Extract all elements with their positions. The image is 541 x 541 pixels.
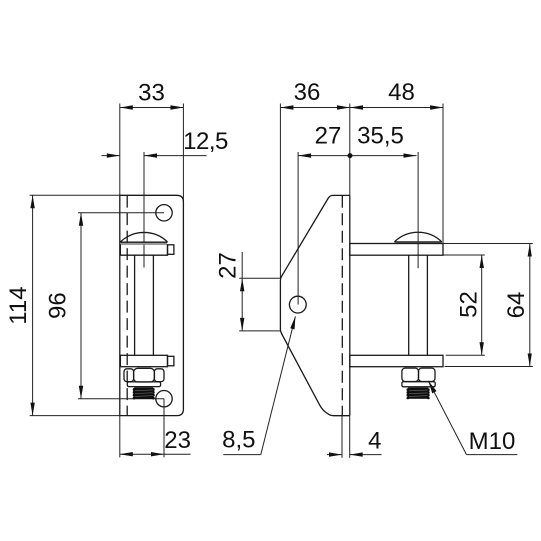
svg-text:12,5: 12,5: [183, 128, 228, 155]
left view top bar tab: [168, 245, 174, 255]
dimension 96 line: [80, 213, 82, 399]
left view nut centre facet: [134, 368, 155, 382]
left view bottom bar: [120, 355, 167, 366]
dimension 33 extension right: [182, 104, 184, 203]
left view mounting plate outline: [120, 195, 184, 415]
right view hidden plate face dashed line: [341, 196, 343, 415]
dimension 96 extension bottom: [78, 398, 164, 400]
dimension 52 arrow bottom: [480, 342, 484, 355]
dimension 96 arrow bottom: [79, 386, 83, 399]
dimension 96 arrow top: [79, 213, 83, 226]
dimension origin dot: [348, 153, 353, 158]
svg-text:52: 52: [455, 291, 482, 318]
dimension 33 extension left: [119, 104, 121, 196]
dimension 33 arrow right: [170, 105, 183, 109]
right view bolt shaft left edge: [408, 255, 410, 355]
dimension 52 extension bottom: [446, 354, 485, 356]
left view top hole: [156, 205, 172, 221]
dimension 4 arrow right: [350, 452, 363, 456]
svg-text:33: 33: [138, 79, 165, 106]
dimension 36 arrow left: [280, 105, 293, 109]
dimension 64 extension top: [443, 243, 533, 245]
dimension 114 extension bottom: [30, 415, 120, 417]
dimension 4 extension left: [341, 416, 343, 458]
dimension 4 line left tail: [327, 454, 342, 456]
right view thread crest streaks: [409, 390, 428, 396]
right view bolt shaft right edge: [426, 255, 428, 355]
left view nut left facet: [124, 369, 134, 382]
bolt centre extension line left view: [143, 152, 145, 268]
left view washer: [127, 382, 160, 387]
dimension 27 vertical extension bottom: [239, 330, 280, 332]
dimension 4 extension right: [349, 416, 351, 458]
dimension 64 arrow bottom: [528, 354, 532, 367]
dimension 23 arrow left: [120, 452, 133, 456]
leader 8,5 line: [261, 316, 296, 454]
dimension 27 vertical line: [241, 252, 243, 331]
svg-text:27: 27: [215, 252, 242, 279]
leader M10 arrow: [428, 381, 436, 394]
right view weld fin and plate edge outline: [280, 195, 349, 415]
right view dome base gray band: [395, 242, 441, 244]
dimension 36 48 line: [280, 107, 443, 109]
svg-text:M10: M10: [469, 428, 516, 455]
leader M10 underline: [467, 454, 518, 456]
left view dome base line: [120, 241, 167, 243]
dimension 114 arrow bottom: [30, 403, 34, 416]
right view plate right face: [349, 195, 351, 415]
left view bolt shaft right edge: [152, 255, 154, 355]
left view hidden fin edge dashed line: [126, 196, 128, 416]
dimension 33 line: [120, 107, 184, 109]
dimension 114 line: [32, 195, 34, 415]
dimension 27 35,5 line: [298, 155, 416, 157]
dimension 27 vertical arrow top: [240, 278, 244, 291]
dimension 48 arrow left: [350, 105, 363, 109]
left view thread crest streaks: [135, 390, 153, 397]
dimension 12,5 arrow left: [107, 153, 120, 157]
dimension 48 arrow right: [430, 105, 443, 109]
svg-text:64: 64: [503, 292, 530, 319]
right view top arm: [350, 244, 443, 256]
dimension 64 extension bottom: [445, 366, 533, 368]
dimension 12,5 line right tail: [144, 155, 207, 157]
right view bolt dome head: [394, 232, 441, 242]
dimension 35,5 arrow right: [404, 153, 417, 157]
right view nut left facet: [402, 368, 419, 381]
right view threaded stud: [407, 388, 430, 400]
dimension 23 extension right from hole centre: [163, 399, 165, 458]
right view plate bottom edge: [333, 415, 350, 417]
right view nut right facet: [419, 368, 436, 381]
dimension 23 arrow right: [151, 452, 164, 456]
dimension 64 arrow top: [528, 244, 532, 257]
left view dome base gray band: [121, 243, 167, 245]
dimension 4 line right tail: [350, 454, 382, 456]
dimension 27 vertical arrow bottom: [240, 318, 244, 331]
svg-text:48: 48: [388, 79, 415, 106]
left view top bar: [120, 244, 167, 255]
left view threaded stud: [133, 387, 155, 399]
dimension 52 line: [481, 255, 483, 355]
svg-text:114: 114: [5, 286, 32, 324]
leader 8,5 underline: [223, 454, 260, 456]
right view fin hole: [289, 296, 306, 313]
right view dome base line: [394, 241, 441, 243]
dimension 35,5 extension to bolt axis: [417, 152, 419, 268]
svg-text:4: 4: [368, 428, 381, 455]
dimension 64 line: [529, 244, 531, 367]
dimension 23 extension left: [119, 416, 121, 458]
left view top bar top faint edge: [120, 243, 167, 245]
left view bolt shaft left edge: [134, 255, 136, 355]
dimension 12,5 arrow right: [144, 153, 157, 157]
right view bottom arm: [350, 355, 443, 366]
left view nut right facet: [154, 369, 164, 382]
svg-text:35,5: 35,5: [357, 123, 404, 150]
dimension 27 arrow left: [298, 153, 311, 157]
leader M10 line: [428, 381, 466, 455]
dimension 52 extension top: [443, 254, 485, 256]
dimension 27 extension to fin hole: [297, 152, 299, 305]
left view bottom bar tab: [168, 356, 174, 366]
dimension 114 arrow top: [30, 195, 34, 208]
right view washer: [402, 382, 435, 387]
dimension 12,5 line left tail: [102, 155, 120, 157]
left view bolt dome head: [120, 232, 167, 241]
left view bottom hole: [156, 391, 172, 407]
dimension 96 extension top: [78, 212, 164, 214]
dimension 27 vertical extension top: [239, 277, 280, 279]
dimension 36 48 extension middle: [349, 104, 351, 196]
svg-text:27: 27: [315, 123, 342, 150]
dimension 114 extension top: [30, 194, 120, 196]
svg-text:23: 23: [164, 427, 191, 454]
dimension 36 arrow right: [337, 105, 350, 109]
leader 8,5 arrow: [290, 316, 295, 329]
svg-text:96: 96: [45, 292, 72, 319]
dimension 33 arrow left: [120, 105, 133, 109]
svg-text:36: 36: [294, 79, 321, 106]
dimension 52 arrow top: [480, 255, 484, 268]
dimension 36 48 extension right: [442, 104, 444, 244]
dimension 4 arrow left: [329, 452, 342, 456]
dimension 23 line: [120, 453, 191, 455]
svg-text:8,5: 8,5: [222, 426, 255, 453]
dimension 36 48 extension left: [279, 104, 281, 279]
